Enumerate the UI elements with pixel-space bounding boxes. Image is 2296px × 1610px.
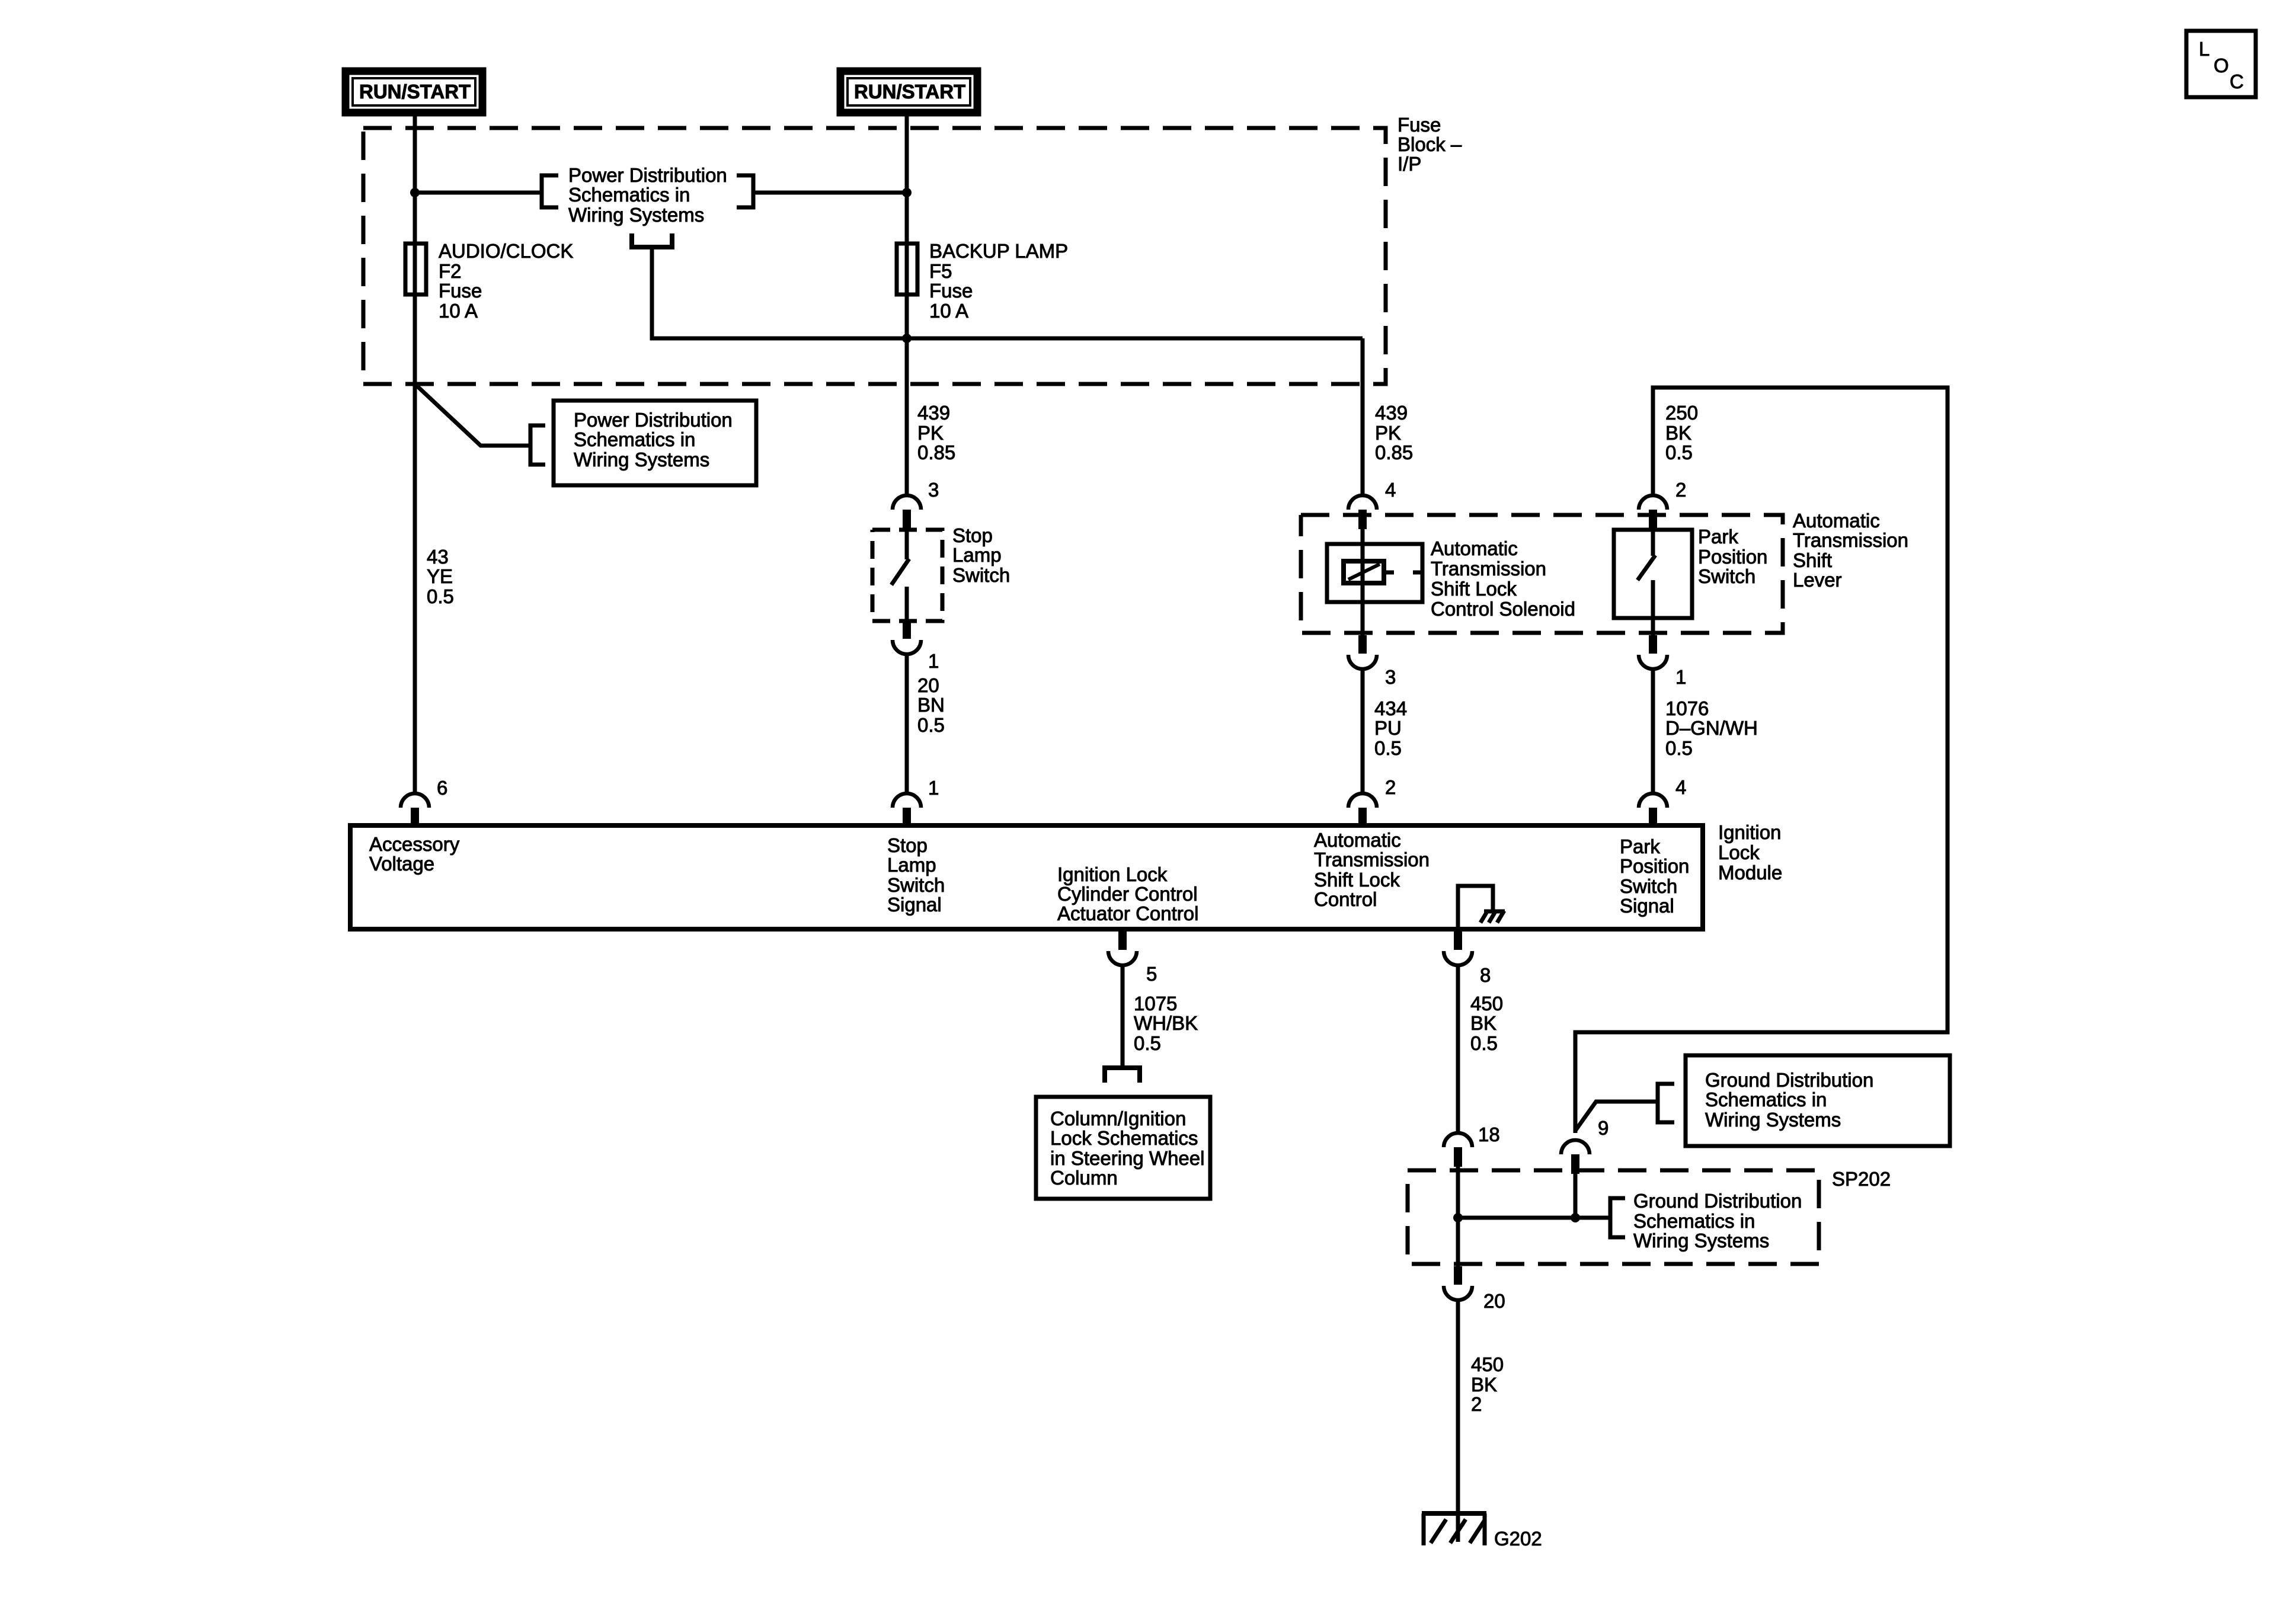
label BACKUP LAMP F5 Fuse 10 A — [929, 240, 1068, 322]
svg-text:Cylinder Control: Cylinder Control — [1057, 883, 1198, 905]
svg-text:Park: Park — [1698, 526, 1738, 548]
svg-text:10 A: 10 A — [929, 300, 968, 322]
svg-text:Ground Distribution: Ground Distribution — [1633, 1190, 1802, 1212]
svg-text:Control: Control — [1314, 888, 1377, 910]
svg-text:Ground Distribution: Ground Distribution — [1705, 1069, 1873, 1091]
svg-text:L: L — [2199, 38, 2209, 60]
label wire 439 PK 0.85 (solenoid feed) — [1375, 402, 1413, 463]
connector pin 3 solenoid bottom — [1348, 635, 1377, 669]
splice wire horizontal — [1458, 1216, 1610, 1220]
node splice junction right — [1571, 1213, 1580, 1222]
svg-text:Power Distribution: Power Distribution — [568, 164, 727, 186]
note box Ground Distribution Schematics in Wiring Systems — [1686, 1055, 1950, 1146]
wire pin 18 into splice — [1456, 1167, 1460, 1218]
automatic transmission shift lever dashed box — [1301, 515, 1783, 633]
svg-text:Shift Lock: Shift Lock — [1431, 578, 1517, 600]
svg-text:250: 250 — [1665, 402, 1698, 424]
label wire 250 BK 0.5 — [1665, 402, 1698, 463]
svg-text:439: 439 — [917, 402, 950, 424]
wire from park switch to module pin 4 — [1651, 669, 1655, 793]
svg-text:SP202: SP202 — [1832, 1168, 1891, 1190]
svg-text:I/P: I/P — [1398, 153, 1421, 175]
label Park Position Switch Signal — [1620, 836, 1689, 917]
wire from W1 to left bracket — [415, 191, 542, 195]
power node RUN/START 2 — [840, 71, 977, 113]
label Ignition Lock Cylinder Control Actuator Control — [1057, 863, 1198, 924]
svg-text:Wiring Systems: Wiring Systems — [1705, 1109, 1841, 1131]
svg-text:Lamp: Lamp — [887, 854, 936, 876]
label AUDIO/CLOCK F2 Fuse 10 A — [439, 240, 573, 322]
svg-text:Shift Lock: Shift Lock — [1314, 869, 1400, 891]
wire from solenoid to module pin 2 — [1361, 669, 1365, 793]
svg-text:Column: Column — [1050, 1167, 1118, 1189]
note box Column/Ignition Lock Schematics in Steering Wheel Column — [1036, 1097, 1210, 1199]
svg-text:6: 6 — [437, 777, 447, 799]
label Fuse Block - I/P — [1398, 114, 1462, 175]
svg-text:BN: BN — [917, 694, 945, 716]
svg-text:F5: F5 — [929, 260, 952, 282]
svg-text:0.5: 0.5 — [917, 714, 945, 736]
svg-text:9: 9 — [1598, 1117, 1609, 1139]
svg-text:3: 3 — [1385, 666, 1396, 688]
label wire 450 BK 2 — [1471, 1353, 1504, 1415]
label wire 1075 WH/BK 0.5 — [1134, 993, 1198, 1054]
wire from right bracket to W2 — [753, 191, 907, 195]
label Automatic Transmission Shift Lock Control Solenoid — [1431, 537, 1575, 620]
svg-text:G202: G202 — [1494, 1528, 1542, 1550]
ignition lock module box — [350, 825, 1703, 929]
svg-text:BK: BK — [1470, 1012, 1496, 1034]
label Ground Distribution Schematics in Wiring Systems (splice) — [1633, 1190, 1802, 1251]
svg-text:20: 20 — [917, 674, 939, 696]
svg-text:Accessory: Accessory — [369, 833, 460, 855]
label Park Position Switch — [1698, 526, 1767, 587]
svg-text:Automatic: Automatic — [1793, 510, 1880, 532]
label Stop Lamp Switch — [952, 524, 1010, 586]
label wire 20 BN 0.5 — [917, 674, 945, 736]
svg-text:F2: F2 — [439, 260, 462, 282]
svg-text:0.5: 0.5 — [1470, 1032, 1498, 1054]
svg-text:Ignition: Ignition — [1718, 821, 1781, 843]
connector pin 2 park position switch — [1639, 495, 1667, 529]
svg-text:Switch: Switch — [1620, 875, 1677, 897]
svg-text:3: 3 — [928, 479, 939, 501]
svg-text:Block –: Block – — [1398, 133, 1462, 155]
label wire 1076 D-GN/WH 0.5 — [1665, 697, 1758, 759]
svg-text:0.5: 0.5 — [1374, 737, 1402, 759]
svg-text:Lock: Lock — [1718, 841, 1760, 863]
svg-text:Shift: Shift — [1793, 549, 1832, 571]
connector pin 20 (cup) — [1444, 1266, 1472, 1300]
svg-text:450: 450 — [1471, 1353, 1504, 1375]
svg-text:Transmission: Transmission — [1793, 529, 1908, 551]
svg-text:Schematics in: Schematics in — [574, 428, 695, 450]
svg-text:Automatic: Automatic — [1431, 537, 1518, 559]
svg-text:5: 5 — [1146, 963, 1157, 985]
svg-text:18: 18 — [1478, 1124, 1500, 1145]
svg-text:20: 20 — [1483, 1290, 1505, 1312]
svg-text:Lock Schematics: Lock Schematics — [1050, 1127, 1198, 1149]
svg-text:Signal: Signal — [887, 894, 942, 916]
fork connector below Power Distribution label — [632, 233, 672, 247]
svg-text:PK: PK — [917, 422, 944, 444]
svg-text:BK: BK — [1471, 1374, 1497, 1395]
wire from splice down — [1456, 1218, 1460, 1266]
wire into solenoid box — [1361, 529, 1365, 544]
svg-text:Power Distribution: Power Distribution — [574, 409, 733, 431]
reference bracket right (Power Distribution) — [737, 175, 753, 207]
connector pin 9 — [1561, 1140, 1590, 1174]
svg-text:Transmission: Transmission — [1431, 558, 1546, 580]
label wire 450 BK 0.5 — [1470, 993, 1503, 1054]
svg-text:0.5: 0.5 — [427, 585, 454, 607]
module pin 8 connector (cup) — [1444, 932, 1472, 965]
svg-text:0.85: 0.85 — [917, 441, 955, 463]
wire from pin 20 to ground G202 — [1456, 1300, 1460, 1542]
svg-text:1: 1 — [1675, 666, 1686, 688]
svg-text:Lamp: Lamp — [952, 544, 1002, 566]
svg-text:BK: BK — [1665, 422, 1691, 444]
ground branch inside module — [1458, 886, 1505, 929]
svg-text:450: 450 — [1470, 993, 1503, 1014]
wire through solenoid box — [1361, 544, 1365, 602]
node junction W2 x horizontal — [902, 334, 912, 343]
svg-text:Fuse: Fuse — [439, 280, 482, 302]
svg-text:1: 1 — [928, 777, 939, 799]
wire park switch feed: top run and down — [1575, 388, 1948, 1133]
svg-text:Schematics in: Schematics in — [1705, 1089, 1827, 1110]
svg-text:PK: PK — [1375, 422, 1401, 444]
svg-text:1076: 1076 — [1665, 697, 1709, 719]
svg-text:Ignition Lock: Ignition Lock — [1057, 863, 1168, 885]
park position switch box — [1614, 530, 1692, 618]
fuse F2 — [405, 244, 426, 295]
svg-text:8: 8 — [1480, 964, 1491, 986]
svg-text:Switch: Switch — [887, 874, 945, 896]
svg-text:10 A: 10 A — [439, 300, 478, 322]
connector pin 1 park switch bottom — [1639, 635, 1667, 669]
svg-text:Position: Position — [1620, 855, 1689, 877]
reference bracket (ground distribution in splice) — [1610, 1198, 1625, 1237]
wire pin 9 branch diagonal to ground distribution reference — [1575, 1102, 1658, 1133]
svg-text:4: 4 — [1675, 776, 1686, 798]
svg-text:RUN/START: RUN/START — [854, 81, 965, 103]
svg-text:Automatic: Automatic — [1314, 829, 1401, 851]
svg-text:2: 2 — [1471, 1393, 1482, 1415]
svg-text:Schematics in: Schematics in — [568, 184, 690, 206]
svg-text:YE: YE — [427, 565, 453, 587]
svg-text:Position: Position — [1698, 546, 1767, 568]
connector pin 3 stop lamp switch — [893, 495, 921, 529]
svg-text:AUDIO/CLOCK: AUDIO/CLOCK — [439, 240, 573, 262]
note box Power Distribution Schematics in Wiring Systems — [554, 401, 756, 485]
connector pin 18 — [1444, 1133, 1472, 1167]
svg-text:Switch: Switch — [1698, 565, 1755, 587]
wire from stop lamp switch to module pin 1 — [905, 654, 909, 793]
LOC reference box — [2186, 31, 2256, 97]
svg-text:4: 4 — [1385, 479, 1396, 501]
svg-text:Lever: Lever — [1793, 569, 1842, 591]
module pin 1 connector — [893, 793, 921, 825]
ground G202 — [1422, 1513, 1486, 1545]
splice SP202 dashed box — [1408, 1170, 1819, 1264]
solenoid box — [1327, 544, 1422, 602]
svg-text:439: 439 — [1375, 402, 1408, 424]
svg-text:Fuse: Fuse — [1398, 114, 1441, 136]
svg-text:C: C — [2230, 71, 2244, 92]
label Automatic Transmission Shift Lock Control — [1314, 829, 1430, 910]
svg-text:1: 1 — [928, 650, 939, 672]
svg-text:in Steering Wheel: in Steering Wheel — [1050, 1147, 1204, 1169]
module pin 4 connector — [1639, 793, 1667, 825]
svg-text:Transmission: Transmission — [1314, 849, 1430, 870]
node splice junction left — [1453, 1213, 1463, 1222]
wire from pin 5 to fork — [1121, 965, 1125, 1065]
label wire 43 YE 0.5 — [427, 546, 454, 607]
svg-text:Actuator Control: Actuator Control — [1057, 902, 1198, 924]
svg-text:D–GN/WH: D–GN/WH — [1665, 717, 1758, 739]
module pin 5 connector (cup) — [1108, 932, 1137, 965]
svg-text:Voltage: Voltage — [369, 853, 434, 875]
svg-text:2: 2 — [1385, 776, 1396, 798]
wire W3 solenoid feed down from corner — [1361, 338, 1365, 495]
label wire 434 PU 0.5 — [1374, 697, 1407, 759]
svg-text:Signal: Signal — [1620, 895, 1674, 917]
wire below park switch — [1651, 618, 1655, 635]
label Ignition Lock Module — [1718, 821, 1782, 884]
module pin 6 connector — [401, 793, 429, 825]
stop lamp switch dashed box — [872, 530, 942, 621]
fork connector above column note box — [1105, 1068, 1140, 1083]
svg-text:Module: Module — [1718, 862, 1782, 884]
svg-text:0.5: 0.5 — [1134, 1032, 1161, 1054]
svg-text:434: 434 — [1374, 697, 1407, 719]
svg-text:Wiring Systems: Wiring Systems — [574, 449, 709, 470]
solenoid coil symbol — [1344, 561, 1422, 583]
svg-text:1075: 1075 — [1134, 993, 1177, 1014]
wire W1 from RUN/START 1 to fuse F2 — [413, 116, 417, 793]
svg-text:0.5: 0.5 — [1665, 441, 1693, 463]
svg-text:BACKUP LAMP: BACKUP LAMP — [929, 240, 1068, 262]
svg-text:Stop: Stop — [952, 524, 993, 546]
power node RUN/START 1 — [346, 71, 482, 113]
label wire 439 PK 0.85 (stop lamp feed) — [917, 402, 955, 463]
wire from fork down and right to W3 — [652, 247, 1363, 338]
svg-text:Fuse: Fuse — [929, 280, 973, 302]
wire below solenoid — [1361, 602, 1365, 635]
stop lamp switch contacts — [891, 530, 909, 621]
fuse F5 — [897, 244, 917, 295]
reference bracket (Power Distribution note box) — [530, 425, 545, 465]
wire pin 9 into splice — [1574, 1174, 1578, 1218]
svg-text:WH/BK: WH/BK — [1134, 1012, 1198, 1034]
svg-text:PU: PU — [1374, 717, 1402, 739]
svg-text:2: 2 — [1675, 479, 1686, 501]
connector pin 4 solenoid top — [1348, 495, 1377, 529]
svg-text:Column/Ignition: Column/Ignition — [1050, 1108, 1186, 1129]
svg-text:43: 43 — [427, 546, 449, 568]
svg-text:Park: Park — [1620, 836, 1660, 857]
node junction on W1 — [410, 188, 420, 197]
svg-text:Control Solenoid: Control Solenoid — [1431, 598, 1575, 620]
label Stop Lamp Switch Signal — [887, 834, 945, 916]
svg-text:O: O — [2214, 55, 2229, 76]
wire diagonal from W1 to Power Distribution note box — [415, 384, 530, 446]
park position switch contacts — [1638, 530, 1655, 618]
wire from pin 8 down to pin 18 — [1456, 965, 1460, 1133]
reference bracket (ground distribution upper) — [1658, 1084, 1674, 1122]
label Accessory Voltage — [369, 833, 460, 875]
node junction on W2 — [902, 188, 912, 197]
reference bracket left (Power Distribution) — [542, 175, 558, 207]
module pin 2 connector — [1348, 793, 1377, 825]
svg-text:Wiring Systems: Wiring Systems — [568, 204, 704, 226]
svg-text:0.85: 0.85 — [1375, 441, 1413, 463]
svg-text:Schematics in: Schematics in — [1633, 1210, 1755, 1232]
svg-text:Switch: Switch — [952, 564, 1010, 586]
wire W2 from RUN/START 2 through F5 down to stop lamp switch — [905, 116, 909, 495]
connector pin 1 stop lamp switch bottom — [893, 620, 921, 654]
svg-text:Stop: Stop — [887, 834, 928, 856]
svg-text:Wiring Systems: Wiring Systems — [1633, 1230, 1769, 1251]
fuse block dashed box — [363, 128, 1386, 384]
svg-text:0.5: 0.5 — [1665, 737, 1693, 759]
label Power Distribution Schematics in Wiring Systems (fuse block) — [568, 164, 727, 226]
svg-text:RUN/START: RUN/START — [359, 81, 471, 103]
label Automatic Transmission Shift Lever — [1793, 510, 1908, 591]
